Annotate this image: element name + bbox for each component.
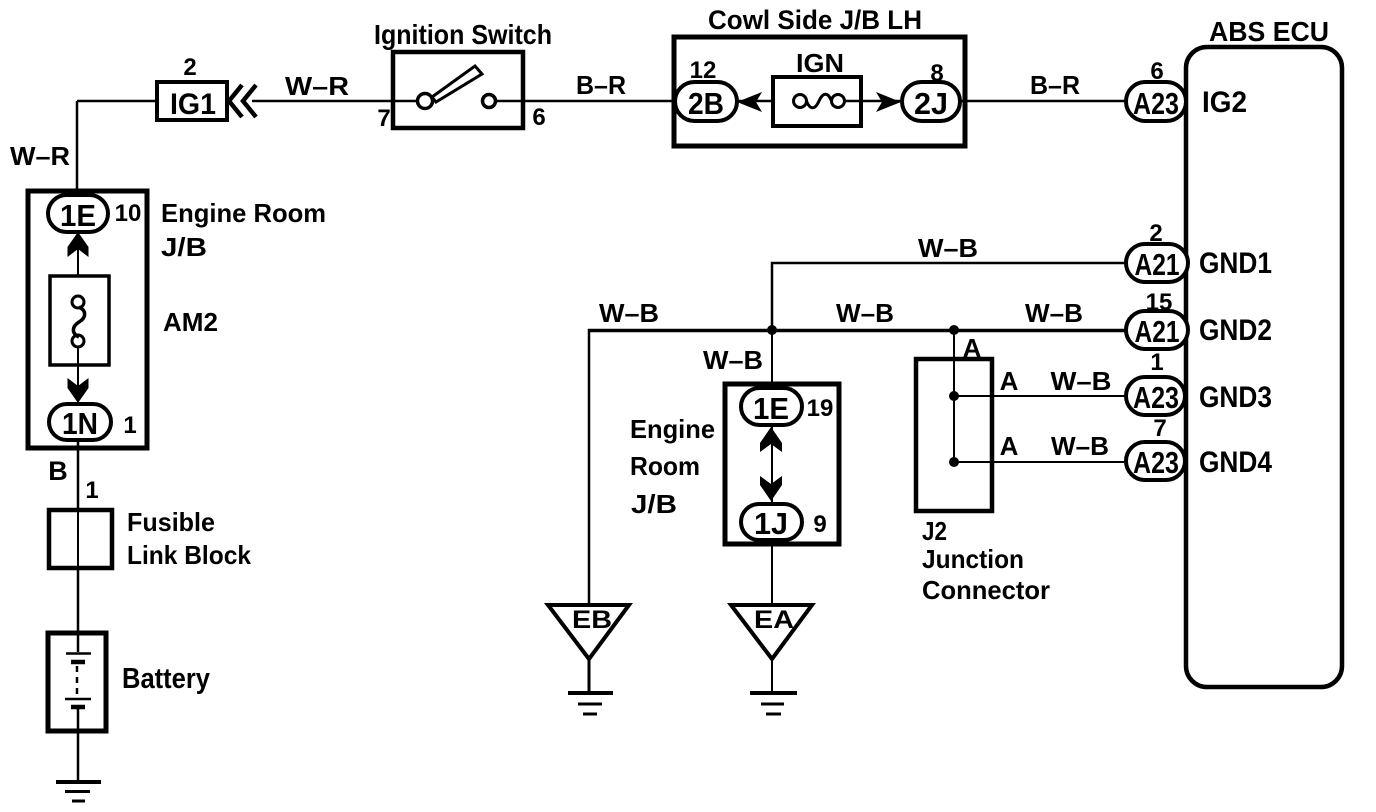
connector chevrons	[229, 85, 256, 117]
Engine Room J/B left block	[28, 191, 147, 448]
EB stem	[588, 659, 591, 691]
connector 1J	[741, 504, 802, 541]
svg-text:IG1: IG1	[170, 88, 216, 121]
svg-text:Ignition Switch: Ignition Switch	[374, 19, 552, 50]
arrow down mid	[760, 476, 782, 501]
wire inside mid J/B	[771, 425, 773, 504]
svg-text:Connector: Connector	[922, 575, 1050, 605]
svg-text:W–R: W–R	[285, 71, 349, 101]
wire B-R to cowl J/B	[523, 100, 675, 103]
fuse AM2	[50, 276, 109, 365]
arrow right	[876, 92, 901, 112]
svg-text:W–B: W–B	[599, 298, 659, 328]
connector A21 GND2	[1126, 311, 1188, 349]
wire to ignition switch	[252, 100, 393, 103]
svg-text:A: A	[1000, 431, 1019, 461]
svg-text:9: 9	[813, 511, 826, 538]
svg-text:A23: A23	[1133, 86, 1179, 121]
connector 1N	[49, 404, 111, 441]
branch wire to GND1	[772, 263, 1126, 330]
wire into J2	[953, 330, 955, 462]
connector A23 GND3	[1126, 377, 1185, 415]
svg-text:GND3: GND3	[1199, 381, 1272, 414]
svg-text:GND1: GND1	[1199, 247, 1272, 280]
svg-text:W–B: W–B	[1051, 431, 1109, 461]
svg-text:A21: A21	[1135, 314, 1180, 349]
arrow up mid	[760, 427, 782, 452]
connector A23 IG2	[1126, 82, 1186, 121]
svg-text:B–R: B–R	[1030, 70, 1080, 100]
ground EA bars	[750, 693, 797, 714]
connector 1E mid	[741, 388, 802, 426]
svg-text:Fusible: Fusible	[127, 507, 215, 537]
battery	[48, 633, 106, 731]
svg-text:2: 2	[183, 54, 196, 81]
arrow left	[737, 92, 762, 112]
svg-text:Junction: Junction	[922, 544, 1024, 574]
svg-text:W–B: W–B	[703, 345, 763, 375]
svg-text:W–R: W–R	[10, 141, 70, 171]
svg-text:ABS ECU: ABS ECU	[1209, 16, 1329, 47]
svg-text:12: 12	[690, 57, 717, 84]
connector 2B	[675, 82, 737, 121]
svg-text:IGN: IGN	[796, 48, 844, 78]
svg-text:6: 6	[532, 104, 545, 131]
svg-text:Engine Room: Engine Room	[161, 198, 326, 228]
svg-text:EA: EA	[754, 606, 794, 634]
junction dot GND3	[949, 391, 959, 401]
svg-text:1: 1	[123, 412, 136, 439]
svg-text:Battery: Battery	[122, 663, 210, 695]
svg-text:J/B: J/B	[631, 489, 677, 519]
ground EB triangle	[548, 605, 629, 659]
Ignition Switch	[374, 19, 552, 128]
svg-text:J/B: J/B	[161, 232, 207, 262]
svg-text:W–B: W–B	[1025, 298, 1083, 328]
wire 1J to EA	[771, 540, 773, 605]
svg-text:A21: A21	[1135, 247, 1180, 282]
junction dot GND4	[949, 457, 959, 467]
svg-text:Link Block: Link Block	[127, 540, 251, 570]
svg-text:J2: J2	[922, 516, 947, 546]
svg-text:GND2: GND2	[1199, 314, 1272, 347]
junction dot 2	[949, 325, 959, 335]
svg-text:A: A	[1000, 366, 1019, 396]
svg-text:7: 7	[377, 105, 390, 132]
wire vertical down to 1E	[76, 101, 79, 196]
svg-text:B–R: B–R	[576, 70, 626, 100]
wire battery to ground	[77, 731, 80, 782]
svg-text:1J: 1J	[754, 506, 788, 541]
ABS ECU body	[1186, 16, 1342, 687]
svg-text:Room: Room	[630, 451, 700, 481]
ground EA triangle	[731, 605, 812, 659]
wire B-R to ABS ECU	[960, 100, 1127, 103]
svg-text:7: 7	[1153, 415, 1166, 442]
svg-text:2J: 2J	[914, 86, 948, 121]
wire W-R from IG1 left to corner	[77, 100, 157, 103]
connector 2J	[902, 82, 960, 121]
svg-text:W–B: W–B	[836, 298, 894, 328]
connector A21 GND1	[1126, 244, 1188, 282]
svg-text:Engine: Engine	[630, 414, 715, 444]
svg-text:IG2: IG2	[1202, 86, 1247, 119]
svg-text:A23: A23	[1133, 445, 1179, 480]
svg-text:1E: 1E	[753, 391, 789, 426]
ground battery	[56, 782, 101, 801]
wire fuse to 1N	[77, 347, 79, 404]
svg-text:GND4: GND4	[1199, 446, 1272, 479]
svg-text:10: 10	[115, 200, 142, 227]
svg-text:W–B: W–B	[918, 233, 978, 263]
connector IG1	[157, 82, 227, 121]
connector 1E	[48, 195, 108, 233]
svg-text:AM2: AM2	[163, 307, 218, 337]
svg-text:1E: 1E	[60, 198, 96, 233]
svg-text:W–B: W–B	[1051, 366, 1112, 396]
wire inside cowl box	[737, 100, 793, 103]
svg-text:19: 19	[807, 395, 834, 422]
J2 junction connector box	[916, 359, 992, 511]
wire down to middle 1E	[771, 330, 773, 388]
arrow down	[68, 378, 89, 403]
svg-text:2B: 2B	[688, 86, 724, 121]
svg-text:A23: A23	[1133, 380, 1179, 415]
wire inside left J/B	[77, 232, 79, 296]
main ground bus wire	[588, 329, 1127, 333]
svg-text:1N: 1N	[62, 406, 98, 441]
EA stem	[771, 659, 773, 691]
Engine Room J/B middle block	[725, 384, 839, 544]
arrow up	[68, 232, 89, 257]
svg-text:1: 1	[85, 477, 98, 504]
wire fusible to battery	[77, 568, 80, 632]
wire to GND3	[954, 395, 1127, 397]
wire to GND4	[954, 461, 1127, 463]
fuse IGN	[773, 48, 861, 126]
ground EB bars	[568, 693, 613, 714]
svg-text:EB: EB	[572, 606, 612, 634]
svg-text:B: B	[48, 456, 68, 486]
wire fuse to 2J	[845, 100, 902, 103]
wire B to fusible link	[77, 440, 80, 510]
junction dot 1	[767, 325, 777, 335]
svg-text:1: 1	[1150, 349, 1163, 376]
connector A23 GND4	[1126, 442, 1185, 480]
Cowl Side J/B LH	[674, 5, 965, 146]
svg-text:Cowl Side J/B LH: Cowl Side J/B LH	[708, 5, 922, 35]
fusible link block	[49, 510, 112, 568]
